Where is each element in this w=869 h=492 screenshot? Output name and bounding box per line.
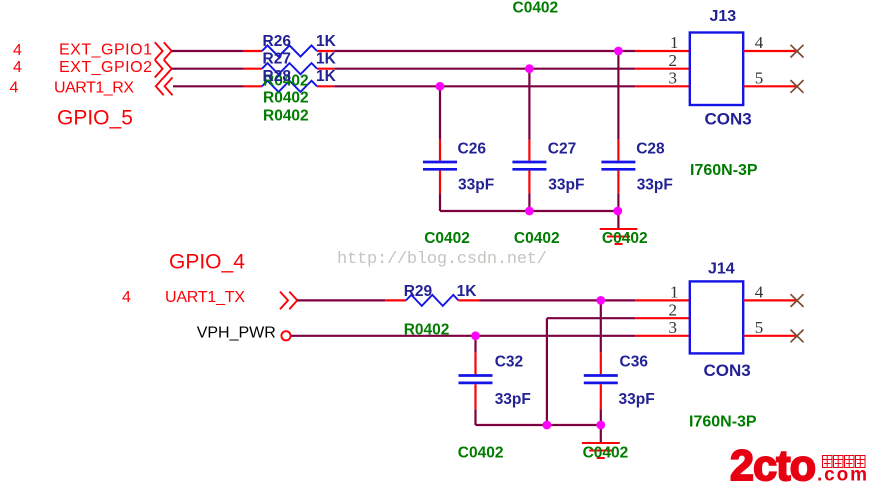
node junction bus / pin2 drop	[543, 421, 552, 430]
svg-text:1K: 1K	[316, 68, 337, 85]
signal label EXT_GPIO1	[59, 42, 152, 59]
label C36	[620, 353, 649, 370]
wire C32 lower drop	[474, 409, 476, 425]
svg-text:C0402: C0402	[424, 230, 470, 247]
node junction VPH_PWR / C32	[471, 331, 480, 340]
capacitor C28	[601, 140, 635, 194]
pin number 4 J13	[755, 33, 764, 52]
svg-text:C28: C28	[636, 140, 665, 157]
node junction bus / ground bottom	[596, 421, 605, 430]
connector J13 pin1 lead	[635, 50, 690, 52]
svg-text:1: 1	[670, 282, 679, 301]
svg-text:C0402: C0402	[602, 230, 648, 247]
svg-text:5: 5	[755, 69, 764, 88]
footprint R0402 second	[263, 90, 309, 107]
page ref 4 UART1_RX	[10, 80, 19, 97]
footprint C0402 under C36	[583, 445, 629, 462]
svg-text:C0402: C0402	[458, 445, 504, 462]
svg-text:CON3: CON3	[704, 361, 751, 380]
value 33pF C36	[619, 391, 655, 408]
label R27	[263, 50, 291, 67]
svg-text:C26: C26	[458, 140, 487, 157]
wire ground stub top	[617, 211, 619, 229]
no-connect X pin4 J13	[791, 45, 804, 58]
wire UART1_RX to R28	[173, 85, 244, 87]
connector J13 pin3 lead	[635, 85, 690, 87]
signal label EXT_GPIO2	[59, 59, 152, 76]
svg-text:33pF: 33pF	[548, 176, 584, 193]
svg-text:33pF: 33pF	[495, 391, 531, 408]
connector J13 body	[690, 33, 743, 106]
footprint C0402 under C27	[514, 230, 560, 247]
svg-text:C36: C36	[620, 353, 649, 370]
svg-text:GPIO_4: GPIO_4	[169, 250, 245, 273]
connector J14 body	[690, 281, 743, 353]
wire C26 vertical drop	[439, 86, 441, 139]
svg-text:I760N-3P: I760N-3P	[690, 162, 758, 179]
no-connect X pin5 J14	[791, 330, 804, 343]
wire ground stub bottom	[600, 425, 602, 443]
svg-text:R0402: R0402	[263, 108, 309, 125]
svg-text:4: 4	[122, 289, 131, 306]
value 33pF C26	[458, 176, 494, 193]
svg-text:4: 4	[755, 282, 764, 301]
connector J14 pin2 lead	[635, 317, 690, 319]
node junction UART1_TX / C36	[596, 296, 605, 305]
svg-text:5: 5	[755, 318, 764, 337]
logo 2cto	[730, 442, 815, 490]
svg-text:CON3: CON3	[705, 110, 752, 129]
svg-text:C0402: C0402	[583, 445, 629, 462]
footprint R0402 third	[263, 108, 309, 125]
svg-text:VPH_PWR: VPH_PWR	[197, 325, 276, 342]
label CON3 J14	[704, 361, 751, 380]
connector J13 pin4 lead	[743, 50, 797, 52]
label R29	[404, 283, 433, 300]
pin number 1 J14	[670, 282, 679, 301]
value 1K R27	[316, 50, 337, 67]
wire R26 to J13 pin1	[334, 50, 635, 52]
svg-text:R26: R26	[263, 33, 292, 50]
pin number 3 J13	[669, 69, 678, 88]
svg-text:GPIO_5: GPIO_5	[57, 106, 133, 129]
footprint C0402 under C32	[458, 445, 504, 462]
resistor R28	[244, 81, 335, 92]
no-connect X pin4 J14	[791, 294, 804, 307]
svg-text:4: 4	[13, 59, 22, 76]
svg-text:2cto: 2cto	[730, 442, 815, 490]
value 1K R26	[316, 33, 337, 50]
label J14	[708, 261, 735, 278]
footprint C0402 under C26	[424, 230, 470, 247]
svg-text:1K: 1K	[316, 50, 337, 67]
label C0402 top	[513, 0, 559, 17]
svg-text:3: 3	[669, 69, 678, 88]
svg-text:4: 4	[755, 33, 764, 52]
resistor R29	[385, 295, 479, 306]
watermark	[337, 250, 547, 269]
wire EXT_GPIO1 to R26	[172, 50, 244, 52]
node junction bus / ground top	[613, 207, 622, 216]
footprint R0402 R29	[404, 321, 450, 338]
value 1K R28	[316, 68, 337, 85]
signal label UART1_RX	[54, 79, 134, 96]
connector J14 pin3 lead	[635, 335, 690, 337]
value 1K R29	[457, 283, 478, 300]
wire VPH_PWR to J14 pin3	[291, 335, 636, 337]
svg-text:EXT_GPIO2: EXT_GPIO2	[59, 59, 152, 76]
page ref 4 EXT_GPIO1	[13, 42, 22, 59]
label I760N-3P top	[690, 162, 758, 179]
svg-text:R28: R28	[263, 68, 292, 85]
label J13	[710, 8, 737, 25]
svg-text:3: 3	[669, 318, 678, 337]
value 33pF C32	[495, 391, 531, 408]
svg-text:UART1_TX: UART1_TX	[165, 289, 245, 306]
page ref 4 EXT_GPIO2	[13, 59, 22, 76]
wire ground bus top section	[440, 210, 618, 212]
node junction EXT_GPIO1 / C28	[614, 47, 623, 56]
label R26	[263, 33, 292, 50]
connector J14 pin1 lead	[635, 299, 690, 301]
wire C28 vertical drop	[617, 51, 619, 140]
capacitor C36	[584, 352, 618, 409]
svg-text:C0402: C0402	[513, 0, 559, 17]
label C27	[548, 140, 576, 157]
label I760N-3P bottom	[689, 414, 757, 431]
wire C32 vertical drop	[474, 336, 476, 353]
page ref 4 UART1_TX	[122, 289, 131, 306]
capacitor C27	[512, 140, 546, 194]
logo chinese characters	[823, 456, 866, 468]
no-connect X pin5 J13	[791, 80, 804, 93]
wire J14 pin2 vertical drop	[546, 318, 548, 425]
svg-text:4: 4	[10, 80, 19, 97]
svg-text:33pF: 33pF	[637, 176, 673, 193]
resistor R26	[244, 45, 335, 56]
port UART1_TX chevron	[280, 292, 297, 310]
wire C36 lower drop	[600, 409, 602, 425]
node junction UART1_RX / C26	[436, 82, 445, 91]
pin number 2 J13	[669, 51, 678, 70]
svg-text:J13: J13	[710, 8, 737, 25]
svg-text:C0402: C0402	[514, 230, 560, 247]
resistor R27	[244, 63, 335, 74]
label C28	[636, 140, 665, 157]
svg-text:1: 1	[670, 33, 679, 52]
logo .com	[817, 465, 867, 486]
svg-text:2: 2	[669, 300, 678, 319]
wire EXT_GPIO2 to R27	[172, 68, 244, 70]
svg-text:http://blog.csdn.net/: http://blog.csdn.net/	[337, 250, 547, 269]
label C32	[495, 353, 523, 370]
signal label UART1_TX	[165, 289, 245, 306]
svg-text:R27: R27	[263, 50, 291, 67]
port EXT_GPIO1 chevron	[155, 42, 172, 60]
capacitor C26	[423, 140, 457, 194]
wire C27 lower drop	[528, 193, 530, 211]
label C26	[458, 140, 487, 157]
wire C27 vertical drop	[528, 69, 530, 140]
value 33pF C28	[637, 176, 673, 193]
wire R29 to J14 pin1	[479, 299, 635, 301]
footprint R0402 first	[263, 73, 309, 90]
connector J14 pin5 lead	[743, 335, 797, 337]
label VPH_PWR	[197, 325, 276, 342]
node junction EXT_GPIO2 / C27	[525, 64, 534, 73]
svg-text:2: 2	[669, 51, 678, 70]
wire C36 vertical drop	[600, 300, 602, 352]
port UART1_RX chevron	[156, 77, 173, 95]
pin number 5 J13	[755, 69, 764, 88]
wire C26 lower drop	[439, 193, 441, 211]
port EXT_GPIO2 chevron	[155, 60, 172, 78]
wire J14 pin2 horizontal	[547, 317, 635, 319]
wire R28 to J13 pin3	[334, 85, 635, 87]
svg-text:4: 4	[13, 42, 22, 59]
svg-text:R29: R29	[404, 283, 433, 300]
connector J13 pin5 lead	[743, 85, 797, 87]
pin number 1 J13	[670, 33, 679, 52]
label GPIO_5	[57, 106, 133, 129]
svg-text:33pF: 33pF	[458, 176, 494, 193]
svg-text:33pF: 33pF	[619, 391, 655, 408]
pin number 2 J14	[669, 300, 678, 319]
ground bottom section	[582, 443, 620, 458]
value 33pF C27	[548, 176, 584, 193]
connector J13 pin2 lead	[635, 68, 690, 70]
svg-text:UART1_RX: UART1_RX	[54, 79, 134, 96]
connector J14 pin4 lead	[743, 299, 797, 301]
node junction bus / C27	[525, 207, 534, 216]
label R28	[263, 68, 292, 85]
wire ground bus bottom section	[476, 424, 601, 426]
wire R27 to J13 pin2	[334, 68, 635, 70]
label CON3 J13	[705, 110, 752, 129]
pin number 5 J14	[755, 318, 764, 337]
pin number 4 J14	[755, 282, 764, 301]
ground top section	[600, 229, 638, 244]
label GPIO_4	[169, 250, 245, 273]
svg-text:C27: C27	[548, 140, 576, 157]
svg-text:J14: J14	[708, 261, 735, 278]
svg-text:1K: 1K	[316, 33, 337, 50]
svg-text:I760N-3P: I760N-3P	[689, 414, 757, 431]
footprint C0402 under C28	[602, 230, 648, 247]
wire UART1_TX to R29	[297, 299, 385, 301]
svg-text:R0402: R0402	[263, 90, 309, 107]
wire C28 lower drop	[617, 193, 619, 211]
svg-text:1K: 1K	[457, 283, 478, 300]
svg-text:EXT_GPIO1: EXT_GPIO1	[59, 42, 152, 59]
VPH_PWR open pin circle	[281, 331, 290, 340]
capacitor C32	[459, 352, 493, 409]
svg-text:C32: C32	[495, 353, 523, 370]
pin number 3 J14	[669, 318, 678, 337]
